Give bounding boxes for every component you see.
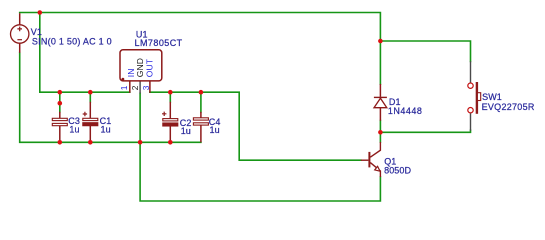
svg-text:EVQ22705R: EVQ22705R — [482, 102, 535, 112]
svg-text:1u: 1u — [101, 125, 111, 135]
svg-text:1u: 1u — [69, 125, 79, 135]
svg-text:1u: 1u — [181, 126, 191, 136]
svg-text:V1: V1 — [31, 27, 42, 37]
svg-text:1u: 1u — [210, 125, 220, 135]
svg-text:2: 2 — [130, 85, 140, 90]
svg-text:1: 1 — [119, 85, 129, 90]
svg-text:LM7805CT: LM7805CT — [135, 38, 183, 48]
svg-text:SIN(0 1 50) AC 1 0: SIN(0 1 50) AC 1 0 — [32, 36, 112, 46]
svg-text:3: 3 — [141, 85, 151, 90]
svg-text:1N4448: 1N4448 — [388, 106, 423, 116]
svg-text:SW1: SW1 — [482, 92, 502, 102]
svg-text:8050D: 8050D — [384, 166, 411, 176]
svg-text:OUT: OUT — [145, 58, 155, 77]
